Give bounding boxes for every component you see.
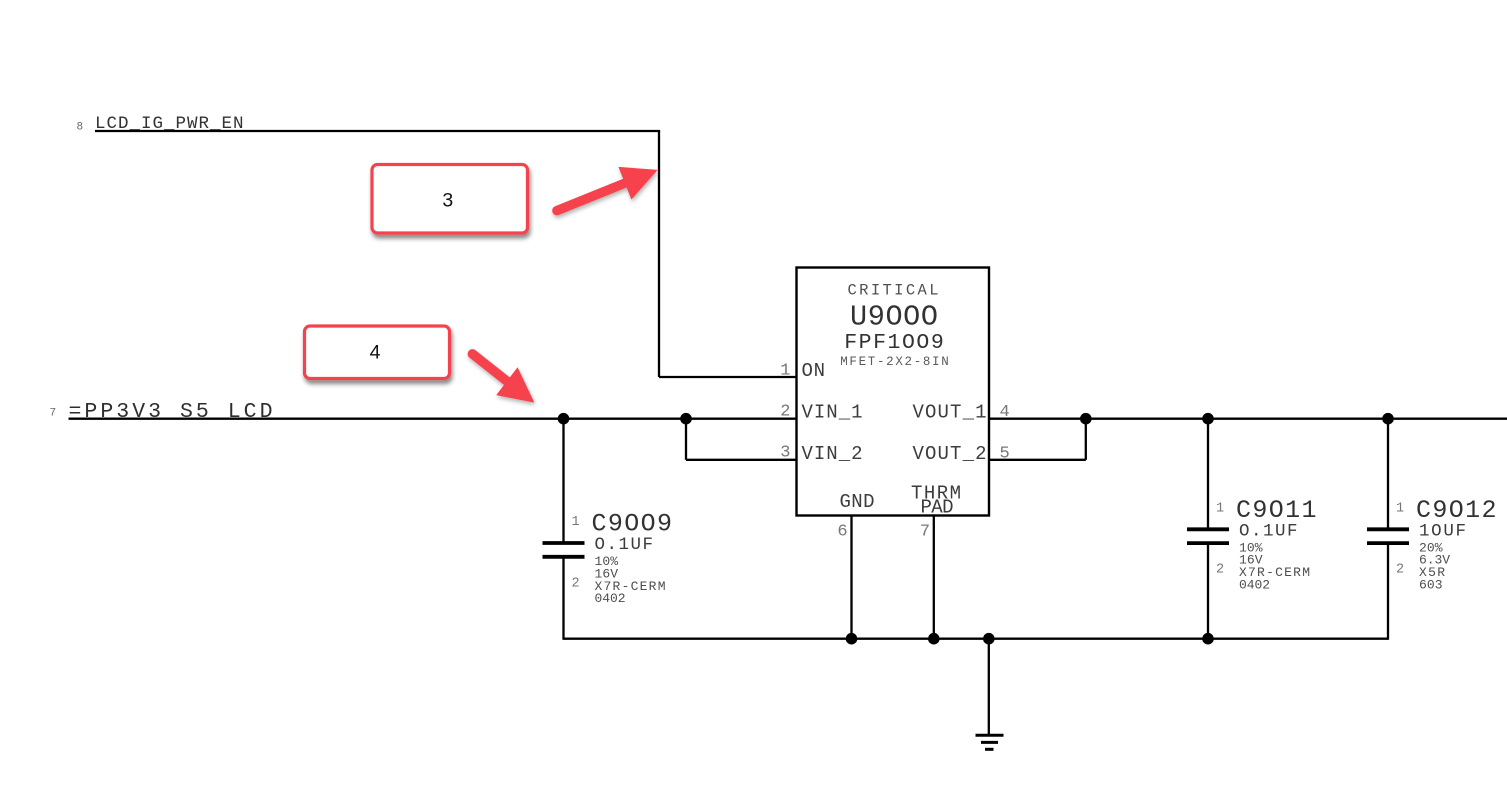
capacitor C9009 bottom lead — [562, 557, 564, 640]
op-amp U1 : IC U9000 body — [797, 268, 990, 516]
svg-text:7: 7 — [50, 408, 57, 420]
wire pin1 ON stub — [659, 376, 797, 378]
capacitor C9009 top lead — [562, 419, 564, 543]
junction dot bus/pin6 — [846, 633, 858, 645]
svg-text:VIN_1: VIN_1 — [802, 402, 863, 424]
wire VOUT_2 stub — [989, 459, 1086, 461]
wire LCD_IG_PWR_EN vertical drop — [658, 131, 660, 377]
svg-text:O.1UF: O.1UF — [595, 535, 654, 555]
svg-text:VIN_2: VIN_2 — [802, 443, 863, 465]
capacitor C9012 plates — [1367, 527, 1409, 531]
wire VIN_2 branch vertical — [685, 419, 687, 460]
junction dot bus/pin7 — [928, 633, 940, 645]
capacitor C9009 plates — [543, 541, 585, 545]
svg-text:U9OOO: U9OOO — [850, 301, 938, 334]
wire THRM PAD pin7 — [933, 516, 935, 639]
svg-text:1: 1 — [1396, 501, 1404, 516]
junction dot bus/ground — [983, 633, 995, 645]
svg-text:FPF1OO9: FPF1OO9 — [844, 331, 944, 355]
svg-text:0402: 0402 — [1239, 577, 1270, 592]
svg-text:MFET-2X2-8IN: MFET-2X2-8IN — [840, 355, 949, 369]
svg-text:GND: GND — [840, 491, 875, 513]
wire VIN_2 branch horizontal — [686, 459, 797, 461]
svg-text:VOUT_2: VOUT_2 — [913, 443, 987, 465]
junction dot main/C9011 — [1202, 413, 1214, 425]
junction dot bus/C9011 — [1202, 633, 1214, 645]
capacitor C9012 bottom lead — [1387, 543, 1389, 640]
svg-text:1OUF: 1OUF — [1419, 521, 1466, 541]
wire VOUT_1 output — [989, 418, 1507, 420]
junction dot main/C9012 — [1382, 413, 1394, 425]
wire ground bus — [564, 638, 1389, 640]
svg-text:O.1UF: O.1UF — [1239, 521, 1298, 541]
callout box 4 — [305, 326, 450, 379]
svg-text:ON: ON — [802, 360, 826, 382]
svg-text:4: 4 — [370, 341, 381, 363]
wire GND pin6 — [850, 516, 852, 639]
svg-text:0402: 0402 — [595, 591, 626, 606]
capacitor C9011 top lead — [1207, 419, 1209, 530]
junction dot main/C9009 — [558, 413, 570, 425]
callout box 3 — [372, 165, 528, 234]
svg-text:CRITICAL: CRITICAL — [848, 282, 939, 300]
svg-text:2: 2 — [780, 403, 790, 422]
svg-text:7: 7 — [920, 523, 930, 542]
wire PP3V3_S5_LCD main input — [69, 418, 797, 420]
svg-text:603: 603 — [1419, 577, 1443, 592]
callout arrow 4 — [472, 354, 534, 403]
svg-text:PAD: PAD — [921, 497, 954, 519]
svg-text:1: 1 — [780, 362, 790, 381]
capacitor C9011 plates — [1187, 527, 1229, 531]
capacitor C9012 top lead — [1387, 419, 1389, 530]
svg-text:1: 1 — [572, 515, 580, 530]
wire LCD_IG_PWR_EN horizontal — [95, 130, 660, 132]
svg-text:VOUT_1: VOUT_1 — [913, 402, 987, 424]
svg-text:6: 6 — [837, 523, 847, 542]
wire ground stem — [988, 639, 990, 736]
svg-text:1: 1 — [1216, 501, 1224, 516]
svg-text:2: 2 — [572, 576, 580, 591]
capacitor C9011 bottom lead — [1207, 543, 1209, 640]
ground — [976, 735, 1004, 749]
svg-text:3: 3 — [780, 444, 790, 463]
svg-text:=PP3V3_S5_LCD: =PP3V3_S5_LCD — [69, 400, 273, 424]
svg-text:2: 2 — [1216, 563, 1224, 578]
svg-text:8: 8 — [77, 122, 84, 134]
wire VOUT_2 riser — [1085, 419, 1087, 460]
junction dot main/VOUT_2 — [1080, 413, 1092, 425]
svg-text:2: 2 — [1396, 563, 1404, 578]
svg-text:3: 3 — [442, 189, 453, 211]
callout arrow 3 — [557, 167, 658, 211]
junction dot main/VIN_2 — [680, 413, 692, 425]
